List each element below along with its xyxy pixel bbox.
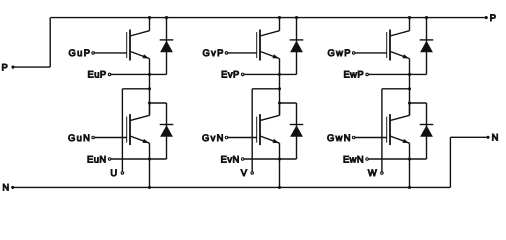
- svg-text:EvP: EvP: [221, 69, 240, 80]
- svg-text:V: V: [241, 167, 248, 178]
- svg-text:P: P: [2, 61, 8, 72]
- svg-text:EwN: EwN: [343, 153, 364, 164]
- svg-text:EuP: EuP: [88, 69, 107, 80]
- svg-text:EuN: EuN: [87, 153, 107, 164]
- svg-text:GuN: GuN: [68, 132, 91, 143]
- svg-text:N: N: [2, 182, 9, 193]
- svg-text:GwN: GwN: [327, 132, 352, 143]
- svg-text:N: N: [492, 132, 499, 143]
- svg-text:U: U: [110, 167, 117, 178]
- svg-text:P: P: [490, 12, 496, 23]
- svg-text:GvP: GvP: [203, 47, 225, 58]
- svg-text:GvN: GvN: [202, 132, 225, 143]
- svg-text:W: W: [368, 167, 377, 178]
- svg-text:EwP: EwP: [343, 69, 364, 80]
- svg-text:GwP: GwP: [328, 47, 352, 58]
- svg-text:EvN: EvN: [221, 153, 240, 164]
- svg-text:GuP: GuP: [68, 47, 91, 58]
